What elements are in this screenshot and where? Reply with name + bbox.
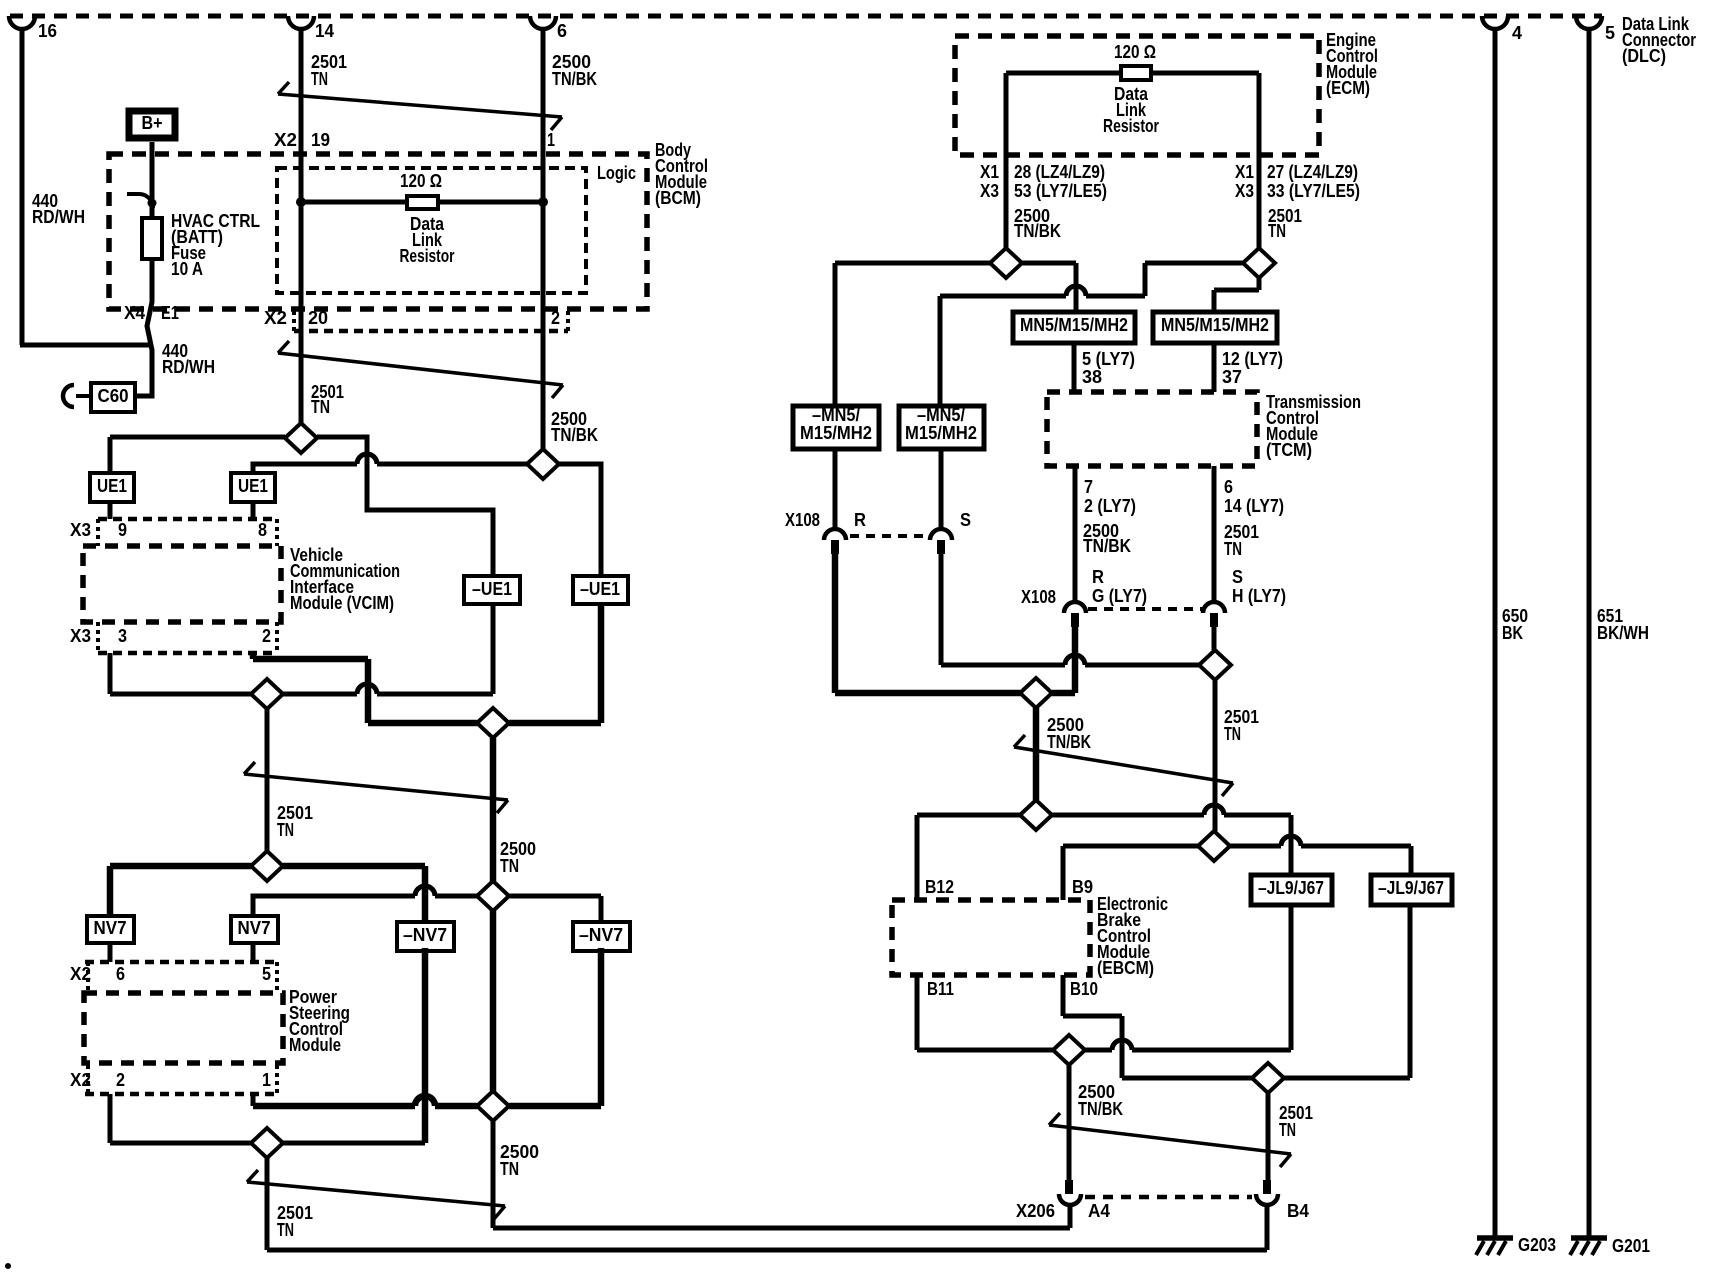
svg-text:E1: E1 <box>161 303 179 323</box>
svg-text:TN/BK: TN/BK <box>1083 536 1131 556</box>
svg-text:TN: TN <box>1268 221 1286 241</box>
svg-text:B12: B12 <box>925 877 954 897</box>
connector UE1 left <box>90 473 134 502</box>
svg-text:B4: B4 <box>1287 1201 1309 1221</box>
connector -UE1 left <box>464 576 520 604</box>
wire 650 BK DLC pin 4 to G203 <box>1493 29 1498 1236</box>
svg-text:5: 5 <box>1605 23 1615 43</box>
connector X206 A4 <box>1065 1180 1073 1194</box>
svg-text:–UE1: –UE1 <box>580 579 620 599</box>
twisted pair crossover top <box>278 94 562 117</box>
wire -MN5 left to splice S12 <box>832 554 839 693</box>
svg-text:TN: TN <box>277 1220 294 1240</box>
fuse clip <box>127 192 139 196</box>
splice S12 2500 <box>1020 678 1052 708</box>
svg-text:UE1: UE1 <box>97 476 127 496</box>
connector DLC pin 14 <box>288 16 314 29</box>
svg-text:12 (LY7): 12 (LY7) <box>1222 349 1283 369</box>
connector NV7 right <box>231 916 278 943</box>
wire 651 BK/WH DLC pin 5 to G201 <box>1587 29 1592 1236</box>
ground G203 <box>1477 1235 1513 1241</box>
wire 2500 splice S15 to X206 A4 <box>1067 1065 1072 1180</box>
module Engine Control Module (ECM) <box>955 36 1319 155</box>
svg-text:A4: A4 <box>1088 1201 1110 1221</box>
splice S1 2501 <box>285 423 317 453</box>
wire -NV7 right to splice S8 line <box>598 948 605 1106</box>
svg-text:5 (LY7): 5 (LY7) <box>1082 349 1135 369</box>
svg-text:37: 37 <box>1222 367 1242 387</box>
svg-text:7: 7 <box>1084 477 1093 497</box>
svg-text:TN: TN <box>1224 724 1241 744</box>
connector DLC pin 5 <box>1576 16 1602 29</box>
connector DLC pin 16 <box>9 16 35 29</box>
svg-text:120 Ω: 120 Ω <box>400 171 442 191</box>
wire 2501 TN DLC pin14 to BCM/splice <box>299 29 304 423</box>
node fuse feed junction <box>148 199 157 208</box>
wire splice S13 to EBCM B12 <box>917 813 1020 818</box>
node resistor left junction <box>296 197 306 207</box>
module Body Control Module (BCM) <box>109 154 647 309</box>
wire bottom 2501 line to splice S7 <box>110 1141 251 1146</box>
wire 2500 splice S6 to splice S8 <box>490 911 497 1091</box>
svg-text:TN: TN <box>500 1159 519 1179</box>
node VCIM X3 bottom strip <box>98 651 277 656</box>
svg-text:120 Ω: 120 Ω <box>1114 42 1156 62</box>
svg-text:(ECM): (ECM) <box>1326 78 1370 98</box>
svg-text:B+: B+ <box>142 113 163 133</box>
connector -MN5/M15/MH2 left <box>793 406 879 449</box>
svg-text:TN: TN <box>1224 539 1242 559</box>
wire X108 H down to splice S11 <box>1212 627 1217 650</box>
wire splice S9 left to -MN5 left <box>835 261 990 266</box>
svg-text:M15/MH2: M15/MH2 <box>905 423 977 443</box>
twisted pair crossover below PSCM <box>247 1182 505 1206</box>
svg-text:RD/WH: RD/WH <box>32 207 85 227</box>
svg-text:X4: X4 <box>124 303 145 323</box>
wire splice S1 to -UE1 branch <box>317 437 493 576</box>
wire 2500 splice S12 down to splice S13 <box>1033 708 1040 800</box>
svg-text:33 (LY7/LE5): 33 (LY7/LE5) <box>1267 181 1360 201</box>
svg-text:27 (LZ4/LZ9): 27 (LZ4/LZ9) <box>1267 162 1358 182</box>
connector -JL9/J67 left <box>1251 875 1332 905</box>
svg-text:TN: TN <box>1279 1120 1296 1140</box>
svg-text:(DLC): (DLC) <box>1622 46 1666 66</box>
splice S7 2501 <box>251 1128 283 1158</box>
fuse HVAC CTRL (BATT) 10 A <box>142 218 162 259</box>
wire UE1 left to VCIM pin 9 <box>108 502 113 519</box>
module Power Steering Control Module <box>84 993 283 1063</box>
splice S8 2500 <box>477 1091 509 1121</box>
wire 2500 splice S4 down to splice S6 <box>490 738 497 881</box>
connector MN5/M15/MH2 right <box>1153 312 1277 343</box>
wire ECM right lead 2501 <box>1257 73 1262 248</box>
svg-text:UE1: UE1 <box>238 476 268 496</box>
svg-text:G203: G203 <box>1518 1235 1556 1255</box>
svg-text:6: 6 <box>1224 477 1233 497</box>
svg-text:S: S <box>960 510 971 530</box>
svg-text:H (LY7): H (LY7) <box>1232 586 1286 606</box>
svg-text:X1: X1 <box>980 162 999 182</box>
svg-text:TN/BK: TN/BK <box>1014 221 1061 241</box>
svg-text:3: 3 <box>118 626 127 646</box>
svg-text:2 (LY7): 2 (LY7) <box>1084 496 1136 516</box>
svg-text:G (LY7): G (LY7) <box>1092 586 1147 606</box>
connector X108 G (TCM side) <box>1073 466 1078 602</box>
svg-text:X1: X1 <box>1235 162 1254 182</box>
wire splice S14 to -JL9 right <box>1230 844 1281 849</box>
svg-text:9: 9 <box>118 520 127 540</box>
splice S15 2500 <box>1053 1035 1085 1065</box>
svg-text:TN/BK: TN/BK <box>1078 1099 1123 1119</box>
wire NV7 right stub to line <box>253 896 415 916</box>
wire VCIM pin 3 to splice S3 <box>108 653 113 694</box>
twisted pair crossover right upper <box>1014 747 1233 783</box>
wire splice S9 right to MN5 left <box>1022 261 1076 266</box>
connector X206 B4 <box>1263 1180 1271 1194</box>
svg-text:–UE1: –UE1 <box>472 579 512 599</box>
svg-text:MN5/M15/MH2: MN5/M15/MH2 <box>1020 315 1128 335</box>
splice S11 2501 <box>1199 650 1231 680</box>
splice S2 2500 <box>527 449 559 479</box>
ground G201 <box>1571 1235 1607 1241</box>
svg-text:10 A: 10 A <box>171 259 203 279</box>
svg-text:6: 6 <box>116 964 125 984</box>
svg-text:X3: X3 <box>70 520 91 540</box>
wire 2501 TN splice S7 to X206 B4 branch <box>265 1158 270 1250</box>
svg-text:S: S <box>1232 567 1243 587</box>
svg-text:19: 19 <box>311 130 330 150</box>
svg-text:5: 5 <box>262 964 271 984</box>
splice S10 2501 <box>1243 248 1275 278</box>
splice S4 2500 <box>477 708 509 738</box>
wire MN5 right to TCM pin 37 <box>1212 343 1217 392</box>
svg-text:R: R <box>854 510 866 530</box>
wire X206 dashed mate <box>1085 1195 1252 1200</box>
wire X108 G down to splice S12 corner <box>1072 627 1079 693</box>
svg-text:2: 2 <box>262 626 271 646</box>
splice S14 2501 <box>1198 831 1230 861</box>
svg-text:2: 2 <box>551 308 560 328</box>
node resistor right junction <box>538 197 548 207</box>
svg-text:53 (LY7/LE5): 53 (LY7/LE5) <box>1014 181 1107 201</box>
svg-text:(TCM): (TCM) <box>1266 440 1312 460</box>
wire splice S10 left to -MN5 right <box>1145 261 1243 266</box>
svg-text:–NV7: –NV7 <box>579 925 623 945</box>
node page mark <box>5 1263 11 1269</box>
svg-text:NV7: NV7 <box>94 918 127 938</box>
wire splice S2 to UE1 branch <box>253 464 357 473</box>
svg-text:–MN5/: –MN5/ <box>917 405 965 425</box>
resistor Data Link Resistor 120 ohm (ECM) <box>1006 71 1259 76</box>
wire splice S3 to -UE1 left <box>283 692 357 697</box>
svg-text:R: R <box>1092 567 1104 587</box>
connector -NV7 right <box>573 922 630 951</box>
svg-text:20: 20 <box>308 308 328 328</box>
wire splice S6 to -NV7 right <box>509 894 601 899</box>
svg-text:1: 1 <box>547 130 555 150</box>
wire PSCM pin 2 down <box>108 1094 113 1143</box>
wire splice S5 to NV7 left <box>110 863 251 870</box>
node PSCM X2 bottom strip <box>85 1092 280 1097</box>
svg-text:TN: TN <box>277 820 294 840</box>
svg-text:8: 8 <box>258 520 267 540</box>
connector C60 <box>91 383 135 412</box>
module Vehicle Communication Interface Module (VCIM) <box>83 546 281 622</box>
splice S16 2501 <box>1252 1063 1284 1093</box>
svg-text:4: 4 <box>1512 23 1522 43</box>
connector DLC pin 4 <box>1482 16 1508 29</box>
wire -JL9 left down to splice S15 line <box>1289 905 1294 1050</box>
svg-text:C60: C60 <box>98 386 129 406</box>
svg-text:X2: X2 <box>274 130 297 150</box>
wire -MN5 right to splice S11 <box>939 554 944 665</box>
module BCM Logic block <box>277 168 586 293</box>
svg-text:BK: BK <box>1502 623 1523 643</box>
svg-text:14 (LY7): 14 (LY7) <box>1224 496 1284 516</box>
wire X108 right dashed mate <box>1088 607 1202 611</box>
svg-text:1: 1 <box>262 1070 271 1090</box>
wire splice S10 bottom to MN5 right <box>1257 278 1262 290</box>
svg-text:TN/BK: TN/BK <box>551 425 598 445</box>
wire ECM left lead 2500 <box>1004 73 1009 248</box>
twisted pair crossover below VCIM <box>244 774 508 800</box>
svg-text:B9: B9 <box>1072 877 1093 897</box>
wire PSCM pin1 line to splice S8 <box>253 1103 415 1110</box>
connector X108 H (TCM side) <box>1212 466 1217 602</box>
svg-text:–MN5/: –MN5/ <box>812 405 860 425</box>
svg-text:B11: B11 <box>927 979 954 999</box>
svg-text:Module (VCIM): Module (VCIM) <box>290 593 394 613</box>
wire B+ to fuse <box>150 142 155 218</box>
wire -JL9 right down to splice S16 <box>1408 905 1413 1078</box>
connector -JL9/J67 right <box>1371 875 1452 905</box>
wire NV7 boxes to PSCM pins <box>108 942 113 962</box>
wire 2501 splice S11 down to splice S14 <box>1213 680 1218 831</box>
wire 2500 TN splice S8 to X206 A4 branch <box>491 1121 496 1228</box>
twisted pair crossover below BCM <box>278 353 563 385</box>
resistor Data Link Resistor 120 ohm (BCM) <box>301 200 543 205</box>
power B+ <box>129 111 175 138</box>
svg-text:TN: TN <box>500 856 519 876</box>
svg-text:RD/WH: RD/WH <box>162 357 215 377</box>
wire splice S1 to VCIM pin 9 <box>110 435 285 440</box>
splice S5 2501 <box>251 851 283 881</box>
splice S3 2501 <box>251 679 283 709</box>
node VCIM X3 top strip <box>98 517 277 522</box>
svg-text:M15/MH2: M15/MH2 <box>800 423 872 443</box>
splice S6 2500 <box>477 881 509 911</box>
connector NV7 left <box>87 916 134 943</box>
wire 440 RD/WH from DLC pin 16 <box>20 29 25 345</box>
svg-text:X3: X3 <box>70 626 91 646</box>
svg-text:14: 14 <box>315 21 334 41</box>
svg-text:X108: X108 <box>1021 587 1056 607</box>
wire splice S13 to -JL9 left <box>1052 813 1204 818</box>
svg-text:(BCM): (BCM) <box>655 188 701 208</box>
svg-text:(EBCM): (EBCM) <box>1097 958 1154 978</box>
connector X108 R left <box>833 449 838 529</box>
wire 2501 splice S3 down to splice S5 <box>265 709 270 851</box>
module Electronic Brake Control Module (EBCM) <box>892 900 1090 975</box>
node BCM X2 connector strip <box>294 329 568 334</box>
wire 2501 splice S16 to X206 B4 <box>1266 1093 1271 1180</box>
wire MN5 left to TCM pin 38 <box>1072 343 1077 392</box>
svg-text:Resistor: Resistor <box>1103 116 1159 136</box>
svg-text:TN/BK: TN/BK <box>1047 732 1091 752</box>
wire splice S14 to EBCM B9 <box>1063 844 1198 849</box>
wire EBCM B11 to splice S15 <box>915 975 920 1050</box>
wire PSCM pin 1 down <box>251 1094 256 1106</box>
svg-text:X206: X206 <box>1016 1201 1055 1221</box>
twisted pair crossover right lower <box>1049 1125 1291 1154</box>
svg-text:Resistor: Resistor <box>400 246 455 266</box>
svg-text:X108: X108 <box>785 510 820 530</box>
connector DLC pin 6 <box>530 16 556 29</box>
svg-text:28 (LZ4/LZ9): 28 (LZ4/LZ9) <box>1014 162 1105 182</box>
svg-text:X2: X2 <box>264 308 287 328</box>
svg-text:X3: X3 <box>980 181 999 201</box>
svg-text:TN/BK: TN/BK <box>552 69 597 89</box>
svg-text:16: 16 <box>38 21 57 41</box>
wire splice S2 to -UE1 right branch <box>559 464 601 576</box>
svg-text:G201: G201 <box>1612 1236 1650 1256</box>
splice S13 2500 <box>1020 800 1052 830</box>
svg-text:NV7: NV7 <box>238 918 271 938</box>
svg-text:TN: TN <box>311 69 328 89</box>
svg-text:Module: Module <box>289 1035 341 1055</box>
svg-text:2: 2 <box>116 1070 125 1090</box>
wire 2500 TN/BK DLC pin6 to BCM/splice <box>541 29 546 449</box>
svg-text:TN: TN <box>311 397 330 417</box>
svg-text:X3: X3 <box>1235 181 1254 201</box>
connector UE1 right <box>231 473 275 502</box>
svg-text:–JL9/J67: –JL9/J67 <box>1258 878 1324 898</box>
svg-text:–NV7: –NV7 <box>403 925 447 945</box>
svg-text:–JL9/J67: –JL9/J67 <box>1378 878 1444 898</box>
svg-text:BK/WH: BK/WH <box>1597 623 1649 643</box>
connector MN5/M15/MH2 left <box>1013 312 1135 343</box>
wire 440 RD/WH fuse output X4 E1 to C60 <box>135 259 152 396</box>
wire splice S5 to -NV7 left branch <box>283 863 425 870</box>
connector -NV7 left <box>397 922 454 951</box>
connector X108 S left <box>939 449 944 529</box>
wire UE1 right to VCIM pin 8 <box>251 502 256 519</box>
wire VCIM pin2 branch to splice S4 to -UE1 right <box>368 720 477 727</box>
node PSCM X2 top strip <box>85 960 280 965</box>
svg-text:6: 6 <box>557 21 567 41</box>
wire X108 left dashed mate <box>850 534 928 538</box>
wire -NV7 left through to bottom line <box>422 948 429 1143</box>
splice S9 2500 <box>990 248 1022 278</box>
svg-text:B10: B10 <box>1070 979 1098 999</box>
connector -UE1 right <box>573 576 628 604</box>
wire EBCM B10 jog to splice S16 line <box>1061 975 1066 1016</box>
svg-text:Logic: Logic <box>597 163 636 183</box>
wire VCIM pin 2 jog <box>250 653 257 659</box>
svg-text:38: 38 <box>1082 367 1102 387</box>
connector -MN5/M15/MH2 right <box>899 406 984 449</box>
module Transmission Control Module (TCM) <box>1047 392 1257 466</box>
svg-text:MN5/M15/MH2: MN5/M15/MH2 <box>1161 315 1269 335</box>
node DLC bus - top dashed connector line <box>10 14 1602 19</box>
